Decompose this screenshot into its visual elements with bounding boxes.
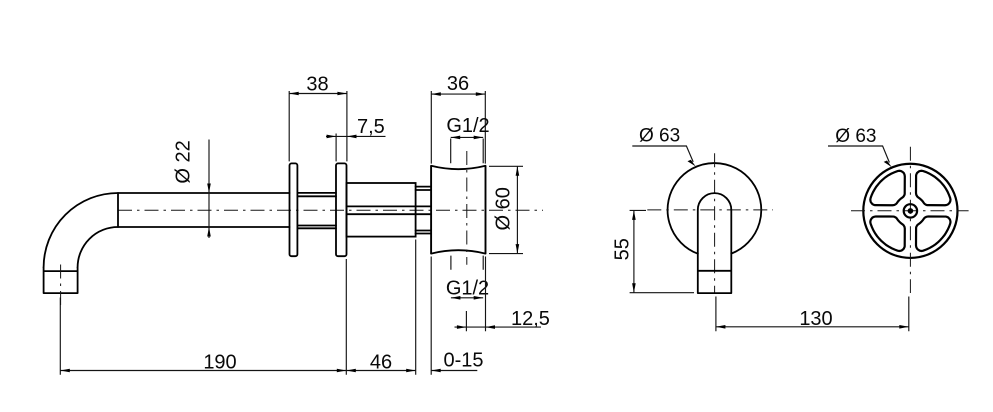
flange F1 (wall flange disc) (290, 163, 298, 256)
svg-text:Ø 60: Ø 60 (493, 187, 515, 230)
front view: escutcheon circle (668, 163, 762, 254)
dimension 190 (60, 351, 346, 373)
front view: spout tube (698, 193, 732, 293)
dimension 36 (431, 73, 485, 164)
spout drop-tube centerline (60, 265, 62, 310)
handwheel slot SW (870, 216, 905, 251)
svg-text:G1/2: G1/2 (446, 278, 489, 300)
svg-text:190: 190 (203, 351, 236, 373)
dimension diam 60 (489, 166, 523, 253)
handwheel hub screw (908, 208, 914, 214)
handwheel outer circle (863, 164, 957, 258)
front view: horizontal centerline (647, 209, 773, 211)
dimension diam 22 (173, 140, 211, 239)
handwheel horizontal centerline (851, 210, 969, 212)
main horizontal centerline of spout/body axis (118, 209, 543, 211)
dimension 0-15 (431, 350, 483, 373)
spout end cap (44, 267, 78, 293)
svg-text:46: 46 (370, 351, 392, 373)
valve body vertical centerline (466, 151, 468, 265)
svg-text:0-15: 0-15 (444, 350, 484, 372)
svg-text:12,5: 12,5 (511, 308, 550, 330)
label G1/2 top thread (446, 115, 489, 163)
bottom dimension extension lines (60, 240, 431, 375)
handwheel slot SE (916, 216, 951, 251)
dimension 55 (612, 210, 695, 292)
handwheel hub (904, 204, 917, 217)
svg-text:130: 130 (799, 308, 832, 330)
handwheel vertical centerline (909, 147, 911, 293)
svg-text:7,5: 7,5 (357, 116, 385, 138)
svg-text:G1/2: G1/2 (446, 115, 489, 137)
wall sleeve cylinder (347, 183, 416, 237)
svg-text:Ø 63: Ø 63 (639, 126, 680, 147)
flange F2 (rosette disc) (336, 163, 347, 256)
handwheel slot NW (870, 171, 905, 206)
dimension 12,5 (455, 257, 550, 332)
dimension 7,5 (326, 116, 386, 161)
svg-text:Ø 22: Ø 22 (173, 140, 195, 183)
dimension 46 (346, 351, 415, 373)
svg-text:55: 55 (612, 238, 634, 260)
label diam 63 (right, handwheel) (828, 126, 892, 167)
dimension 130 (716, 297, 909, 332)
label diam 63 (left, escutcheon) (632, 126, 695, 167)
svg-text:38: 38 (306, 74, 328, 96)
handwheel slot NE (870, 171, 950, 251)
valve body (cartridge housing) (431, 166, 485, 254)
front view: vertical centerline (714, 153, 716, 293)
threaded tube between flanges (297, 193, 336, 228)
inner supply pipe (347, 206, 432, 214)
spout tube (side view) (44, 193, 290, 267)
dimension 38 (289, 74, 347, 162)
svg-text:36: 36 (447, 73, 469, 95)
svg-text:Ø 63: Ø 63 (835, 126, 876, 147)
threaded collar between sleeve and valve body (416, 187, 432, 234)
label G1/2 bottom thread (446, 256, 489, 300)
